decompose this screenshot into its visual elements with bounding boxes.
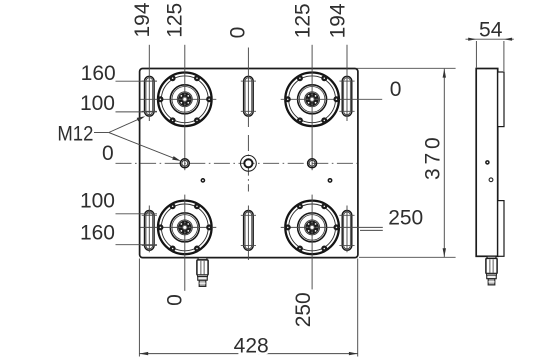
M12 thread hole right — [308, 159, 317, 168]
ticks slot bottom-left — [142, 215, 157, 245]
svg-text:0: 0 — [164, 294, 187, 306]
dim line 428 — [139, 353, 357, 355]
svg-text:0: 0 — [102, 142, 114, 165]
clamping chuck A1 body — [158, 73, 212, 127]
pneumatic fitting side view — [486, 256, 497, 285]
pneumatic fitting front view — [197, 258, 208, 287]
svg-text:125: 125 — [163, 3, 186, 38]
clamping chuck A2 insert — [285, 75, 340, 123]
svg-text:100: 100 — [80, 190, 115, 213]
wire extension column 194-right — [346, 45, 348, 121]
svg-text:250: 250 — [388, 207, 423, 230]
centerline bottom chuck right ordinate 250 — [311, 195, 313, 290]
svg-text:160: 160 — [80, 221, 115, 244]
clamping chuck B1 body — [158, 201, 212, 255]
arrow 428 left — [139, 352, 148, 355]
centerline top chuck row left — [141, 98, 217, 100]
small pin hole right — [328, 179, 331, 182]
dim line 160 top-left — [116, 80, 158, 82]
svg-text:194: 194 — [131, 2, 154, 37]
wire extension column 194-left — [148, 45, 150, 121]
center bore — [241, 155, 257, 171]
dim line 160 bottom-left — [116, 244, 158, 246]
leader M12 to slot — [109, 117, 143, 132]
extension line 54 right — [503, 41, 505, 71]
ticks slot top-middle — [241, 81, 256, 111]
side view plug hole — [485, 160, 490, 165]
clamping chuck A1 insert — [157, 75, 212, 123]
centerline bottom chuck left ordinate 0 — [184, 195, 186, 291]
clamping chuck B2 body — [285, 201, 339, 255]
clamping chuck B1 insert — [157, 203, 212, 251]
extension line 370 top — [357, 67, 456, 69]
arrow 428 right — [349, 352, 358, 355]
centerline bottom slot left — [148, 206, 150, 253]
clamping chuck A2 body — [285, 73, 339, 127]
center bore blank — [240, 155, 257, 172]
arrow 54 left — [468, 38, 476, 41]
main vertical centerline — [247, 135, 249, 192]
ticks slot bottom-right — [339, 215, 354, 245]
dim 250 right jog segment — [360, 229, 383, 231]
svg-text:428: 428 — [234, 334, 269, 357]
svg-text:100: 100 — [80, 92, 115, 115]
centerline bottom chuck row right dim 250 — [281, 226, 383, 228]
M12 hole right blank — [307, 158, 318, 169]
svg-text:125: 125 — [291, 3, 314, 38]
svg-text:0: 0 — [226, 27, 249, 39]
side view plate body — [476, 69, 498, 257]
small pin hole left — [201, 179, 204, 182]
centerline top chuck row right datum 0 — [281, 98, 383, 100]
slot top-left — [145, 76, 155, 116]
plate outline — [140, 69, 358, 258]
dim line 370 — [443, 69, 445, 257]
side view chuck protrusion bottom — [498, 201, 504, 257]
slot top-middle — [244, 76, 254, 116]
main horizontal centerline datum 0 left — [116, 162, 358, 164]
extension line 54 left — [475, 41, 477, 68]
leader M12 to hole — [109, 133, 179, 161]
dim line 100 top-left — [116, 111, 158, 113]
extension line 428 right — [357, 259, 359, 357]
extension line 370 bottom — [359, 256, 456, 258]
M12 thread hole left — [180, 159, 189, 168]
slot bottom-middle — [244, 211, 254, 251]
ticks slot bottom-middle — [241, 215, 256, 245]
svg-text:250: 250 — [292, 292, 315, 327]
svg-text:160: 160 — [81, 62, 116, 85]
slot top-right — [342, 76, 352, 116]
svg-text:54: 54 — [479, 18, 503, 41]
slot bottom-right — [342, 211, 352, 251]
svg-text:370: 370 — [422, 137, 445, 180]
svg-text:194: 194 — [326, 3, 349, 38]
ticks slot top-left — [142, 81, 157, 111]
clamping chuck B2 insert — [285, 203, 340, 251]
extension line 428 left — [138, 259, 140, 357]
arrow 370 top — [443, 69, 446, 78]
svg-text:0: 0 — [390, 78, 402, 101]
arrow 54 right — [504, 38, 512, 41]
slot bottom-left — [145, 211, 155, 251]
side view chuck protrusion top — [498, 72, 504, 127]
leader M12 horizontal — [94, 132, 109, 134]
ticks slot top-right — [339, 81, 354, 111]
wire extension column 125-right — [311, 45, 313, 170]
centerline bottom slot right — [346, 206, 348, 253]
centerline bottom slot middle — [247, 206, 249, 261]
M12 hole left blank — [180, 158, 191, 169]
centerline bottom chuck row left — [141, 226, 217, 228]
wire extension column 125-left — [184, 45, 186, 170]
svg-text:M12: M12 — [57, 123, 93, 146]
side view pin hole — [489, 178, 493, 182]
dim line 54 — [466, 38, 514, 40]
arrow 370 bottom — [443, 248, 446, 257]
dim line 100 bottom-left — [116, 213, 158, 215]
wire extension column 0-top — [247, 48, 249, 128]
